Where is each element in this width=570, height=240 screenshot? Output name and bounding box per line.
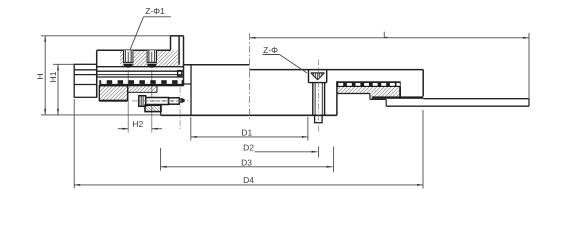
centerline x=249.5 — [249, 33, 251, 120]
D4 — [73, 99, 75, 189]
left shaft stepped block — [74, 64, 97, 97]
screw protruding tip — [315, 115, 323, 122]
right hatch left section — [337, 87, 370, 94]
screw2 centerline ext — [151, 70, 153, 133]
H dim line — [44, 36, 46, 115]
bracket under screw — [145, 105, 161, 111]
right teeth band — [336, 81, 400, 87]
leader Z-Phi — [263, 55, 308, 74]
bracket right edge — [160, 106, 162, 115]
right hatch right section — [370, 87, 400, 97]
leader Z-Phi1 — [130, 17, 171, 50]
countersunk screw shank — [313, 83, 325, 116]
rail top edge — [184, 64, 250, 66]
pocket steps — [370, 94, 386, 107]
screw centerline — [318, 60, 320, 132]
D3 arrows — [161, 166, 167, 168]
horizontal screw tip — [179, 98, 185, 102]
right body bottom-left corner vertical — [336, 81, 338, 115]
rail inner vertical — [190, 65, 192, 116]
svg-text:Z-Φ: Z-Φ — [263, 45, 278, 55]
H2 dim segs — [118, 128, 128, 130]
D2 arrow — [312, 151, 318, 153]
H1 dim line — [57, 64, 59, 115]
svg-text:L: L — [383, 29, 388, 39]
rim wall foot line — [184, 83, 192, 85]
svg-text:D4: D4 — [243, 175, 254, 185]
H extension top — [41, 35, 171, 37]
bottom extension — [41, 114, 161, 116]
body bottom edge — [161, 114, 337, 116]
horizontal screw shank — [146, 98, 180, 105]
svg-text:H2: H2 — [132, 119, 143, 129]
D1 arrows — [191, 136, 197, 138]
thin plate — [386, 99, 529, 107]
svg-text:H1: H1 — [48, 71, 58, 82]
dark ledge under notch — [372, 96, 423, 98]
left teeth band — [99, 80, 183, 86]
countersunk screw head — [311, 73, 325, 80]
screw axis centerline — [132, 100, 189, 102]
lower hatch block — [99, 86, 127, 102]
chuck body outline — [97, 36, 184, 98]
L — [250, 37, 530, 39]
screw Z-Phi1 no.2 — [147, 50, 157, 68]
body horizontal lines — [97, 67, 184, 77]
D2 dim line — [255, 151, 318, 153]
D4 arrows — [74, 184, 80, 186]
L arrows — [250, 37, 256, 39]
H2 arrows (outside) — [122, 128, 128, 130]
screw1 centerline ext — [127, 70, 129, 133]
svg-text:H: H — [35, 73, 45, 79]
D1 ext lines — [190, 117, 192, 141]
H1 arrows — [57, 64, 59, 70]
horizontal screw head — [139, 96, 146, 107]
svg-text:D2: D2 — [243, 143, 254, 153]
svg-text:Z-Φ1: Z-Φ1 — [145, 6, 165, 16]
block bottom-right notch — [95, 85, 97, 88]
D1 dim line — [191, 136, 308, 138]
svg-text:D1: D1 — [241, 128, 252, 138]
countersunk screw Z-Phi recess — [309, 70, 327, 83]
H1 extension top — [53, 63, 74, 65]
svg-text:D3: D3 — [241, 158, 252, 168]
right body outline — [250, 70, 424, 97]
H arrows — [44, 36, 46, 42]
D3 — [160, 148, 162, 171]
hatch shelf right of block — [128, 86, 157, 93]
flange hatch — [120, 50, 179, 66]
screw Z-Phi1 no.1 — [123, 50, 133, 68]
rim inner step — [178, 71, 182, 76]
arrowheads — [44, 36, 529, 186]
centerline x=180 lower — [179, 87, 181, 131]
